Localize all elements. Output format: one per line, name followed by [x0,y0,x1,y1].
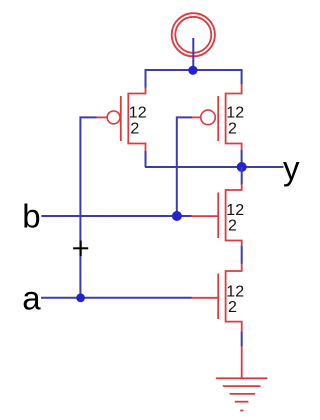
wire M1 drain drop to output [145,151,147,167]
transistor M1 gate lead [97,116,108,118]
transistor M1 gate line [120,96,122,141]
cell center marker [73,241,88,257]
svg-text:2: 2 [228,120,237,137]
wire M2 gate to node b vertical [177,117,192,216]
value label M4 12/2 [226,283,244,316]
svg-text:12: 12 [226,105,244,122]
svg-text:12: 12 [129,105,147,122]
svg-text:2: 2 [228,218,237,235]
node b junction [172,211,182,221]
node output junction [237,162,247,172]
transistor M3 gate lead [191,215,218,217]
transistor M4 gate line [217,274,219,320]
node a junction [76,293,85,302]
value label M2 12/2 [226,105,244,138]
svg-text:2: 2 [228,299,237,316]
svg-text:12: 12 [226,202,244,219]
wire b net horizontal [41,215,191,217]
wire power stem [192,38,194,70]
transistor M4 gate lead [191,297,218,299]
svg-text:y: y [283,150,300,187]
wire output net y [145,166,284,168]
transistor M1 (left PMOS) source/drain/channel [128,88,145,152]
svg-text:12: 12 [226,283,244,300]
ground [216,346,268,411]
transistor M3 (top NMOS) source/drain/channel [226,184,242,247]
wire top rail [146,70,242,89]
transistor M1 bubble [107,111,120,124]
wire M4 source to ground [241,332,243,347]
wire M2 drain drop to output [241,150,243,166]
wire a net horizontal [41,297,192,299]
transistor M3 gate line [217,193,219,239]
power supply symbol VDD [172,13,215,56]
wire output to M3 drain [241,167,243,185]
svg-text:a: a [22,279,41,316]
transistor M4 (bottom NMOS) source/drain/channel [226,264,242,333]
transistor M2 gate lead [192,116,201,118]
wire M1 gate to node a vertical [80,117,96,297]
svg-text:b: b [22,198,40,235]
value label M3 12/2 [226,202,244,235]
node power junction [188,66,197,75]
transistor M2 bubble [201,110,216,125]
value label M1 12/2 [129,105,147,138]
svg-text:2: 2 [130,120,139,137]
wire M3 source to M4 drain [241,246,243,264]
transistor M2 (right PMOS) source/drain/channel [226,84,242,151]
transistor M2 gate line [217,96,219,141]
